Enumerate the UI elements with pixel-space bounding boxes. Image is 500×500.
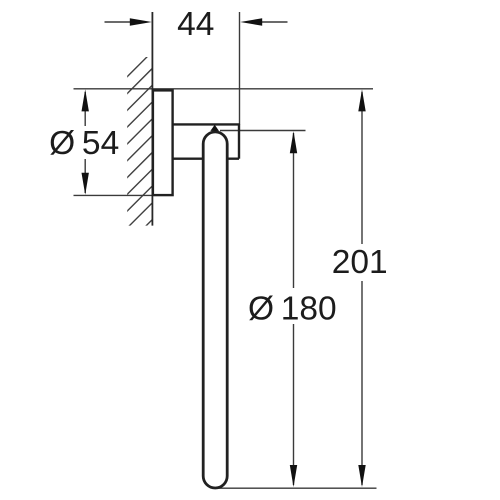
svg-text:Ø 180: Ø 180 bbox=[248, 290, 337, 327]
svg-text:201: 201 bbox=[332, 244, 388, 281]
svg-text:44: 44 bbox=[177, 6, 214, 43]
svg-text:Ø 54: Ø 54 bbox=[49, 125, 119, 162]
